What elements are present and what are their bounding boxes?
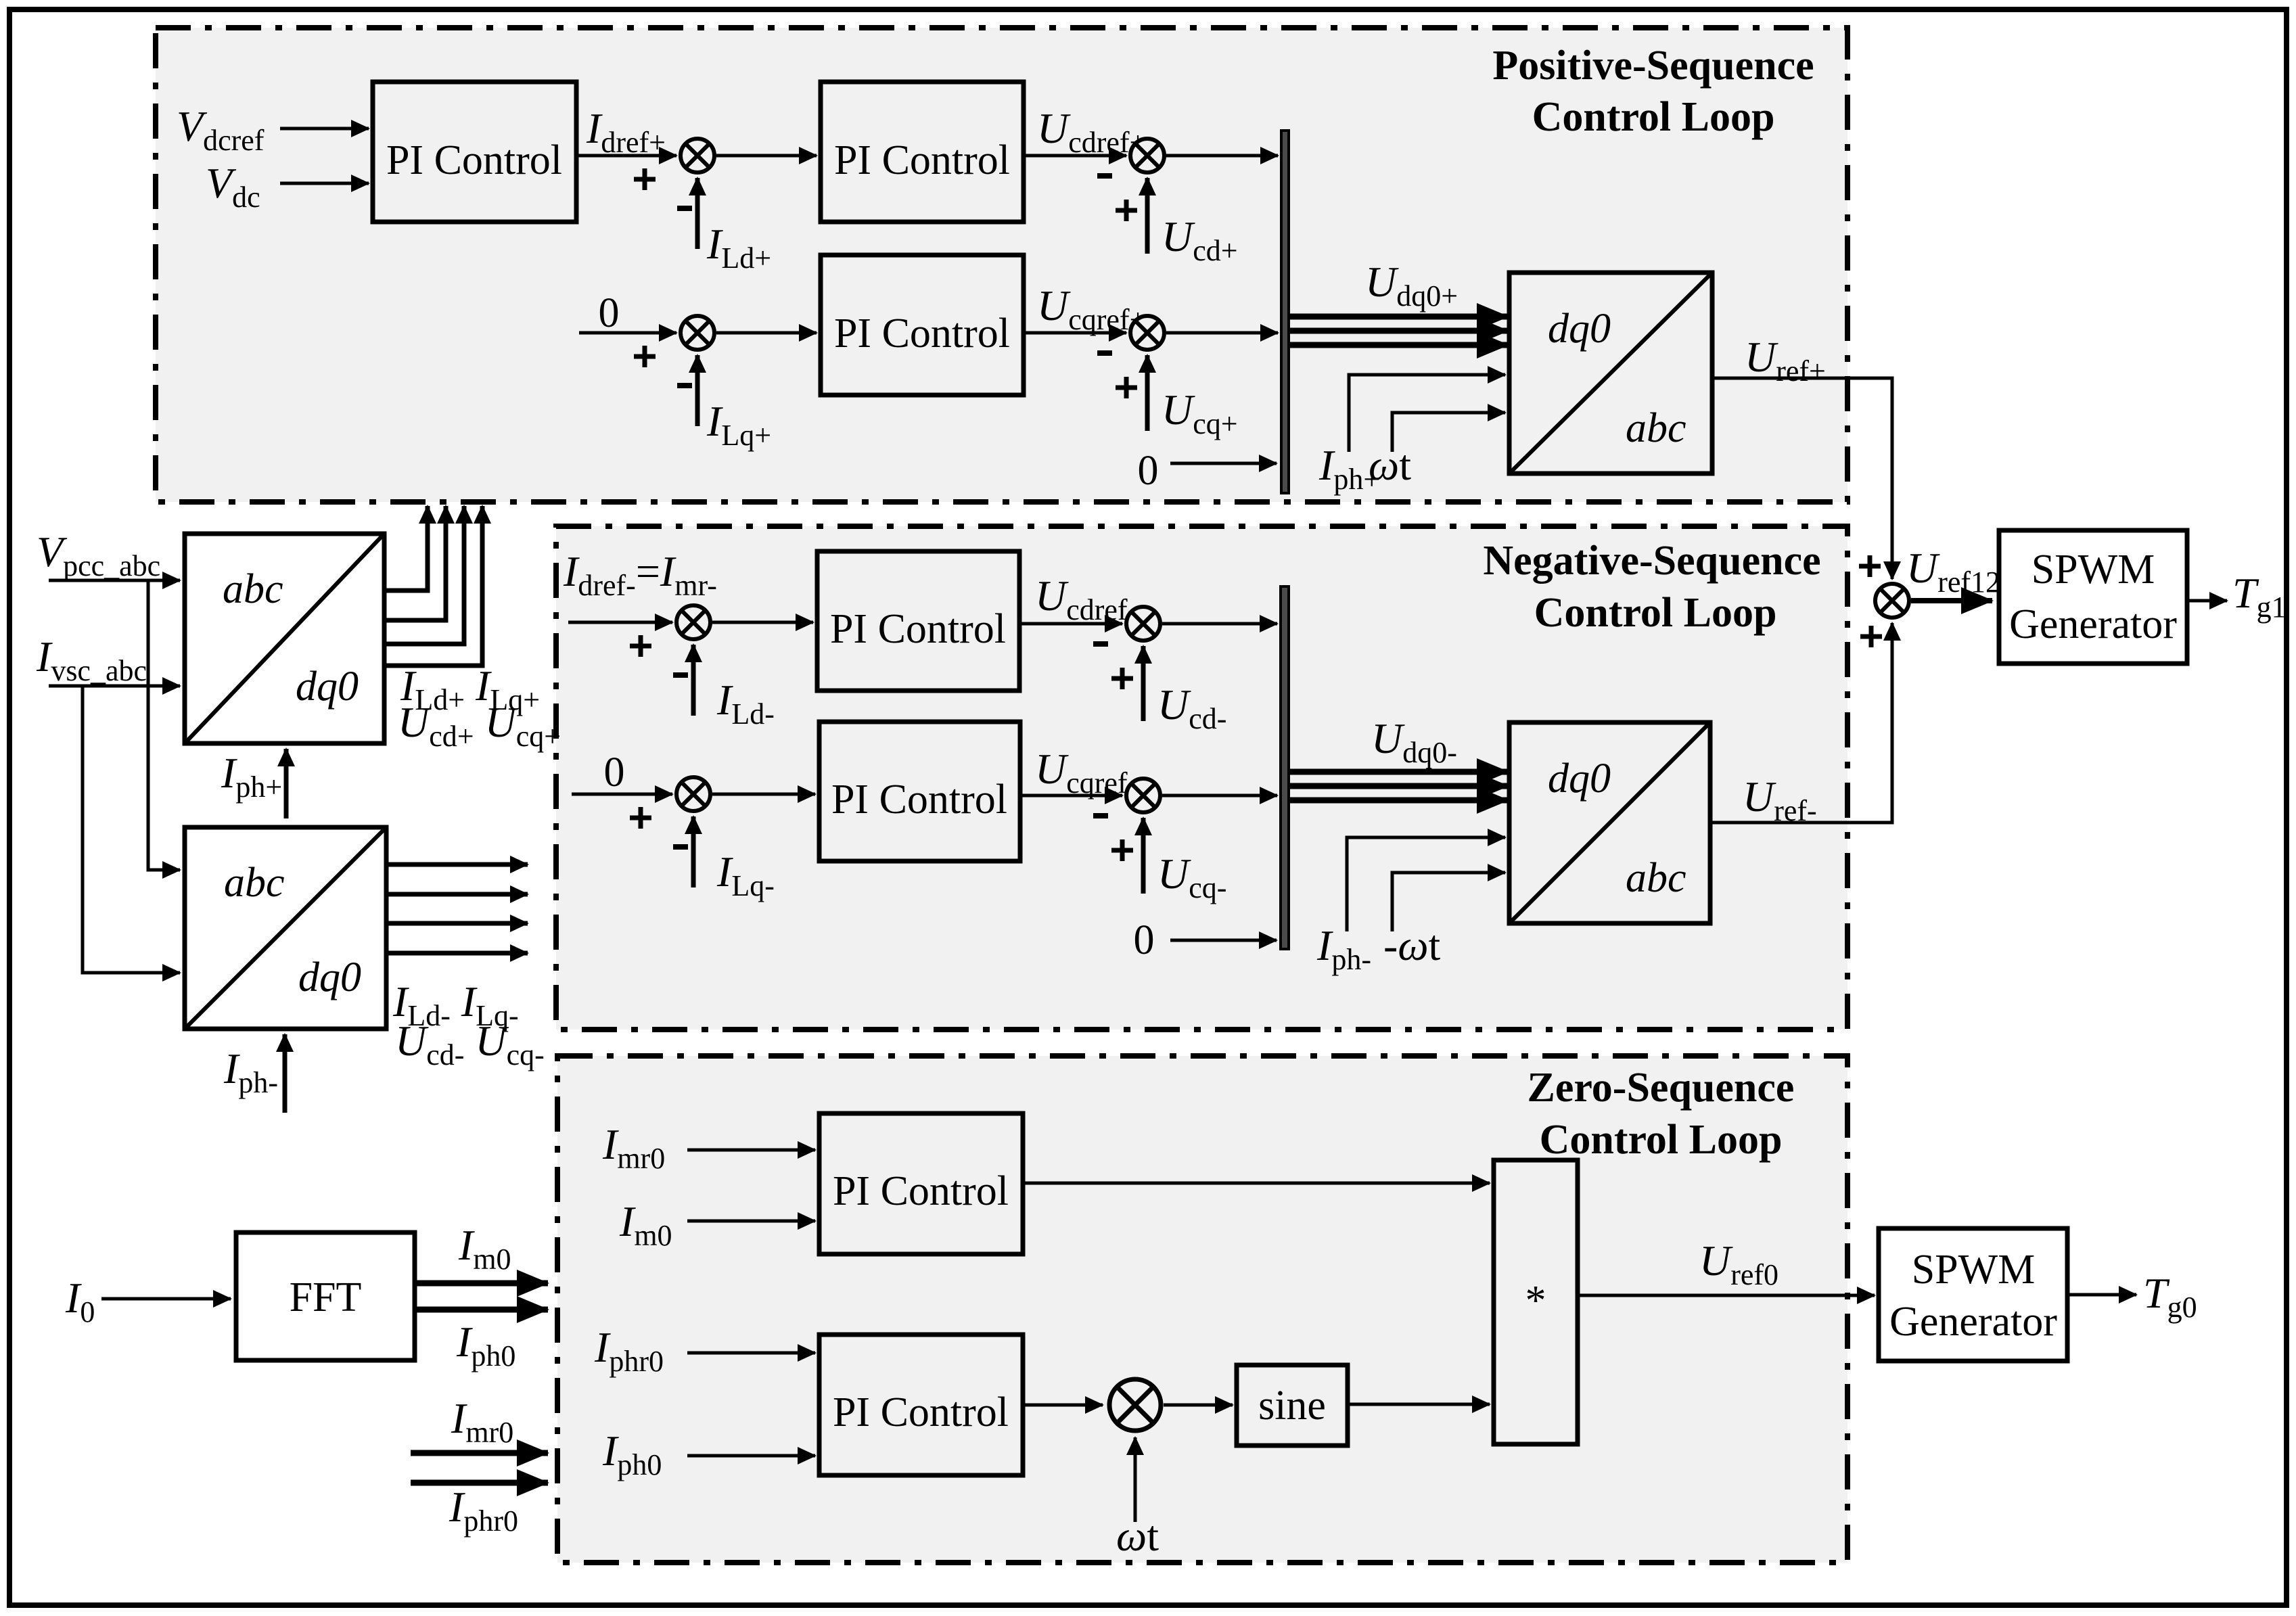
svg-text:PI Control: PI Control: [830, 606, 1006, 652]
wire SPWM2 to Tg0: [2067, 1293, 2136, 1297]
svg-text:FFT: FFT: [290, 1274, 362, 1320]
wire Ucd- up into J6: [1141, 646, 1146, 721]
wire PI3 to sum J4: [1024, 331, 1126, 335]
block multiplier *: [1494, 1160, 1578, 1444]
bus Udq0+ line 2: [1289, 328, 1508, 334]
svg-text:dq0: dq0: [296, 664, 359, 710]
wire FFT out Iph0: [415, 1307, 548, 1313]
block PI Control (zero magnitude): [819, 1113, 1023, 1254]
svg-text:dq0: dq0: [298, 954, 361, 1000]
bus Udq0- line 1: [1289, 769, 1508, 775]
wire 0 into mux bar (neg): [1170, 939, 1277, 942]
minus sign J2: [1097, 173, 1112, 179]
summing junction J8: [1126, 779, 1160, 812]
wire -wt angle into dq0 box (neg): [1392, 873, 1505, 931]
svg-text:sine: sine: [1258, 1383, 1326, 1429]
svg-text:PI Control: PI Control: [833, 1168, 1009, 1214]
plus sign J9 top: [1859, 555, 1881, 577]
svg-text:Generator: Generator: [1889, 1299, 2057, 1345]
wire Iph+ up into box1: [284, 749, 289, 818]
block SPWM Generator 2: [1879, 1228, 2067, 1361]
svg-text:PI Control: PI Control: [831, 777, 1007, 823]
svg-text:Control Loop: Control Loop: [1534, 590, 1777, 636]
wire J1 to PI2: [716, 154, 817, 158]
wire PI (zero mag) to multiplier: [1023, 1182, 1490, 1185]
summing junction J3: [681, 316, 714, 350]
block dq0/abc transform (neg): [1509, 722, 1710, 923]
mux bar (neg): [1281, 586, 1289, 949]
wire Uref- to sum J9: [1710, 623, 1892, 823]
svg-text:dq0: dq0: [1548, 756, 1611, 802]
wire J6 to mux bar (neg): [1162, 622, 1277, 626]
block PI Control (pos q-axis): [821, 255, 1024, 395]
wire box1 output 1 up to pos loop: [384, 506, 428, 591]
svg-text:-ωt: -ωt: [1383, 921, 1441, 969]
plus sign J7: [630, 807, 651, 829]
wire 0 into J7: [572, 793, 672, 796]
wire Ucq+ up into J4: [1145, 355, 1150, 431]
plus sign J2: [1116, 200, 1137, 221]
wire Ivsc branch down to abc-dq0 box2: [83, 686, 180, 973]
title Zero-Sequence Control Loop: [1528, 1065, 1795, 1163]
wire FFT out Im0: [415, 1280, 548, 1287]
summing junction J2: [1130, 139, 1164, 172]
wire SPWM1 to Tg1: [2187, 599, 2227, 603]
plus sign J3: [634, 346, 656, 367]
wire Vpcc branch down to abc-dq0 box2: [148, 580, 180, 870]
minus sign J1: [677, 206, 692, 211]
wire Imr0 into zero loop: [411, 1450, 548, 1456]
wire Vdcref into PI: [280, 127, 369, 131]
plus sign J8: [1111, 839, 1133, 861]
svg-text:Zero-Sequence: Zero-Sequence: [1528, 1065, 1795, 1111]
wire PI2 to sum J2: [1024, 154, 1126, 158]
wire Iphr0 into zero loop: [411, 1480, 548, 1486]
block PI Control (zero phase): [819, 1335, 1023, 1475]
multiplier junction J10: [1109, 1379, 1161, 1431]
wire box2 output 3: [386, 921, 528, 926]
wire Uref0 to SPWM generator 2: [1578, 1294, 1875, 1297]
svg-text:0: 0: [1134, 917, 1155, 963]
wire Ucd+ up into J2: [1145, 178, 1150, 254]
block PI Control (neg q-axis): [819, 722, 1020, 861]
wire J8 to mux bar (neg): [1162, 794, 1277, 798]
summing junction J7: [676, 777, 710, 811]
wire Ivsc_abc into abc-dq0 box1: [49, 685, 180, 688]
svg-text:ωt: ωt: [1116, 1512, 1159, 1560]
wire 0 into J3: [579, 331, 676, 335]
positive-sequence control loop region box: [156, 28, 1847, 502]
wire Vdc into PI: [280, 182, 369, 185]
svg-text:abc: abc: [224, 860, 285, 906]
wire Uref+ to sum J9: [1712, 378, 1892, 579]
wire PI (zero phase) to J10: [1023, 1404, 1103, 1407]
svg-text:PI Control: PI Control: [833, 1389, 1009, 1435]
svg-text:Generator: Generator: [2009, 601, 2177, 647]
bus Udq0- line 2: [1289, 783, 1508, 789]
svg-text:Control Loop: Control Loop: [1540, 1117, 1783, 1163]
wire Iphr0 into PI (zero phase): [687, 1352, 815, 1355]
wire box2 output 4: [386, 951, 528, 956]
bus Udq0+ line 1: [1289, 314, 1508, 320]
summing junction J5: [676, 605, 710, 639]
minus sign J8: [1093, 813, 1108, 818]
mux bar (pos): [1281, 131, 1289, 493]
wire box1 output 3 up to pos loop: [384, 506, 464, 644]
svg-text:*: *: [1525, 1278, 1546, 1324]
block FFT: [236, 1232, 415, 1360]
wire PI1 to sum J1: [576, 154, 676, 158]
wire J7 to PI (neg q): [712, 793, 815, 796]
wire Iph- up into box2: [283, 1034, 288, 1113]
wire box1 output 4 up to pos loop: [384, 506, 482, 666]
wire Iph0 into PI (zero phase): [687, 1454, 815, 1458]
wire box2 output 2: [386, 892, 528, 897]
zero-sequence control loop region box: [557, 1056, 1847, 1563]
plus sign J5: [630, 635, 651, 657]
block sine: [1237, 1365, 1348, 1446]
svg-text:0: 0: [599, 290, 620, 336]
negative-sequence control loop region box: [556, 526, 1847, 1030]
wire J4 to mux bar: [1166, 331, 1278, 335]
summing junction J9 (Uref+ + Uref-): [1875, 584, 1909, 618]
minus sign J5: [673, 672, 688, 678]
block SPWM Generator 1: [1999, 530, 2187, 664]
block abc-dq0 transform 2: [185, 827, 386, 1029]
block PI Control (pos d-axis): [821, 82, 1024, 222]
plus sign J1: [634, 168, 656, 190]
wire Imr0 into PI (zero mag): [687, 1149, 815, 1152]
svg-text:dq0: dq0: [1548, 306, 1611, 352]
wire Idref- into J5: [568, 621, 672, 624]
svg-text:PI Control: PI Control: [834, 310, 1010, 356]
wire wt up into J10: [1134, 1437, 1137, 1522]
wire ILq- up into J7: [691, 816, 696, 887]
wire Iph- angle into dq0 box (neg): [1347, 837, 1505, 931]
wire J9 to SPWM generator 1 (thick): [1911, 598, 1992, 603]
svg-text:Control Loop: Control Loop: [1532, 94, 1775, 140]
title Negative-Sequence Control Loop: [1483, 538, 1820, 636]
summing junction J4: [1130, 316, 1164, 350]
svg-text:abc: abc: [1626, 855, 1686, 901]
summing junction J6: [1126, 607, 1160, 641]
wire J10 to sine: [1164, 1404, 1233, 1407]
wire Iph+ angle into dq0 box: [1349, 375, 1505, 452]
svg-text:SPWM: SPWM: [1912, 1247, 2036, 1293]
bus Udq0+ line 3: [1289, 342, 1508, 348]
bus Udq0- line 3: [1289, 798, 1508, 804]
plus sign J4: [1116, 377, 1137, 398]
block dq0/abc transform (pos): [1509, 273, 1712, 474]
minus sign J7: [673, 844, 688, 850]
block PI Control (pos dc-voltage): [373, 82, 576, 222]
svg-text:abc: abc: [1626, 405, 1686, 451]
svg-text:abc: abc: [223, 566, 283, 612]
wire 0 into mux bar: [1170, 462, 1277, 465]
svg-text:Negative-Sequence: Negative-Sequence: [1483, 538, 1820, 584]
svg-text:ωt: ωt: [1369, 441, 1411, 489]
wire J2 to mux bar: [1166, 154, 1278, 158]
wire ILd- up into J5: [691, 645, 696, 716]
plus sign J6: [1111, 668, 1133, 689]
minus sign J4: [1097, 350, 1112, 356]
block abc-dq0 transform 1: [185, 534, 384, 743]
wire Ucq- up into J8: [1141, 818, 1146, 894]
svg-text:PI Control: PI Control: [834, 137, 1010, 183]
wire box2 output 1: [386, 862, 528, 867]
wire sine to multiplier: [1348, 1403, 1490, 1406]
minus sign J6: [1093, 641, 1108, 647]
svg-text:SPWM: SPWM: [2031, 547, 2155, 593]
wire PI to sum J8: [1020, 794, 1122, 798]
block PI Control (neg d-axis): [817, 551, 1019, 691]
wire Vpcc_abc into abc-dq0 box1: [49, 579, 180, 582]
minus sign J3: [677, 383, 692, 388]
svg-text:Positive-Sequence: Positive-Sequence: [1492, 43, 1814, 89]
svg-text:PI Control: PI Control: [386, 137, 562, 183]
wire box1 output 2 up to pos loop: [384, 506, 446, 620]
wire Im0 into PI (zero mag): [687, 1220, 815, 1223]
wire ILd+ up into J1: [695, 178, 700, 249]
summing junction J1: [681, 139, 714, 172]
wire ILq+ up into J3: [695, 355, 700, 426]
wire wt angle into dq0 box: [1392, 413, 1505, 452]
wire PI to sum J6: [1019, 622, 1122, 626]
svg-text:0: 0: [1138, 448, 1159, 494]
wire I0 into FFT: [101, 1297, 231, 1301]
wire J5 to PI (neg d): [712, 621, 813, 624]
plus sign J9 bottom: [1860, 626, 1882, 647]
wire J3 to PI3: [716, 331, 817, 335]
svg-text:0: 0: [604, 749, 625, 795]
title Positive-Sequence Control Loop: [1492, 43, 1814, 140]
